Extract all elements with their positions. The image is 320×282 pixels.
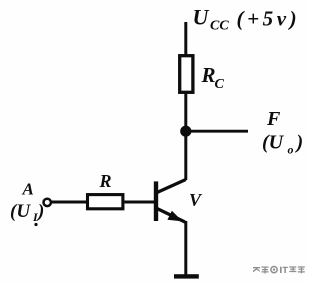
wire node F to output terminal [186, 130, 248, 133]
watermark toutiao @IT [253, 266, 305, 274]
resistor RC body [180, 56, 193, 93]
svg-text:R: R [201, 63, 216, 87]
resistor R body [88, 195, 123, 209]
transistor V emitter lead [157, 209, 185, 223]
svg-text:(U: (U [10, 201, 31, 222]
wire node F to collector [184, 131, 187, 180]
wire Ucc to Rc top [184, 22, 187, 56]
transistor V collector lead [157, 180, 186, 193]
svg-text:): ) [295, 132, 304, 154]
svg-text:(U: (U [262, 132, 285, 154]
wire terminal A to resistor R [51, 201, 87, 204]
wire Rc bottom to node F [184, 94, 187, 132]
wire resistor R to base [125, 201, 155, 204]
wire emitter to ground [184, 221, 187, 275]
label Ucc (+5v) supply net [193, 5, 301, 34]
transistor V emitter arrow [167, 211, 182, 222]
svg-text:R: R [99, 171, 112, 191]
terminal A input circle [44, 199, 51, 206]
svg-text:A: A [22, 180, 34, 199]
ground symbol [174, 274, 199, 278]
svg-text:V: V [189, 190, 203, 210]
svg-text:F: F [266, 108, 281, 130]
svg-text:): ) [36, 201, 44, 222]
label (Ui) [10, 201, 44, 226]
svg-text:o: o [288, 143, 294, 157]
label RC [201, 63, 225, 92]
svg-text:U: U [193, 5, 210, 30]
junction node F (dot) [180, 126, 191, 137]
svg-text:C: C [215, 77, 225, 92]
svg-text:(+5v): (+5v) [237, 7, 301, 31]
svg-text:CC: CC [210, 19, 229, 34]
transistor V base bar [154, 181, 158, 221]
label (Uo) [262, 132, 303, 157]
